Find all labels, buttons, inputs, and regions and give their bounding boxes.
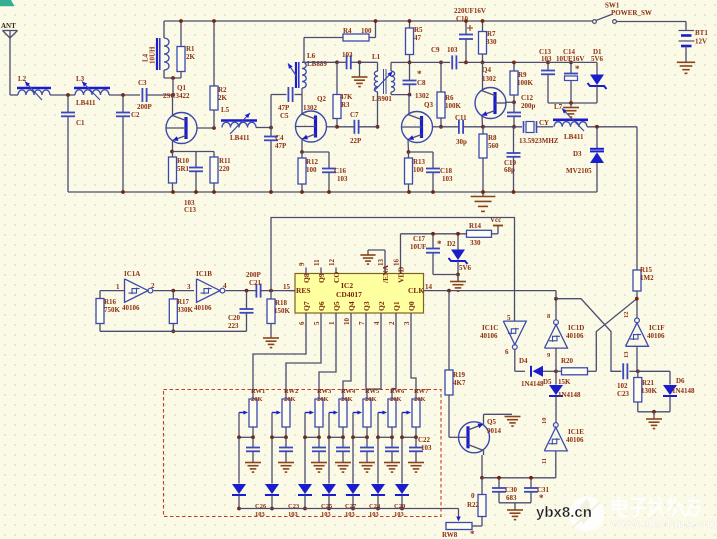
svg-text:C7: C7 (350, 111, 359, 119)
svg-text:10: 10 (541, 418, 548, 425)
svg-text:6: 6 (505, 348, 509, 356)
svg-text:20K: 20K (390, 396, 402, 403)
svg-text:R11: R11 (219, 157, 231, 165)
svg-text:L1: L1 (372, 53, 381, 61)
svg-text:L5: L5 (221, 106, 230, 114)
potentiometer RW3 (315, 399, 323, 427)
svg-text:2: 2 (388, 321, 396, 325)
IC2 bottom pin stubs (305, 313, 307, 320)
capacitor C8 (403, 80, 417, 82)
wire Q4 collector (482, 62, 484, 91)
wire clock corner down (555, 291, 557, 299)
wire Q1 base to R2/L5 node (197, 127, 214, 129)
svg-text:102: 102 (617, 382, 628, 390)
wire Q1 emitter (172, 140, 174, 152)
diode under RW7 (401, 437, 403, 483)
svg-text:LB411: LB411 (564, 133, 584, 141)
resistor R14 (467, 230, 492, 237)
wire Q5 collector (483, 450, 485, 455)
svg-text:47P: 47P (275, 142, 287, 150)
potentiometer RW2 (282, 399, 290, 427)
svg-text:200P: 200P (137, 103, 153, 111)
svg-text:RW2: RW2 (284, 388, 298, 395)
wire RW4 wiper column (328, 413, 330, 438)
svg-text:4: 4 (223, 282, 227, 290)
resistor R1 (180, 21, 182, 47)
inverter IC1D (545, 325, 568, 349)
svg-text:13: 13 (377, 259, 385, 267)
red dashed box (164, 390, 442, 517)
svg-text:LB889: LB889 (307, 60, 327, 68)
svg-text:C12: C12 (521, 94, 534, 102)
svg-text:RW3: RW3 (317, 388, 332, 395)
transformer L1 (374, 71, 378, 92)
potentiometer RW6 (388, 399, 396, 427)
ground above clock row (457, 276, 459, 282)
ground under battery (677, 61, 695, 63)
svg-text:4K7: 4K7 (453, 379, 466, 387)
inductor L7 (553, 119, 588, 122)
diode under RW2 (271, 437, 273, 483)
svg-text:1302: 1302 (303, 104, 318, 112)
svg-text:200P: 200P (246, 271, 262, 279)
wire L1 primary bottom to base row (377, 92, 379, 127)
capacitor C1 (67, 95, 69, 112)
top power rail (164, 20, 594, 22)
svg-text:R6: R6 (445, 94, 454, 102)
diode bus to RW8 (239, 508, 459, 510)
wire C6 to L1 primary (360, 61, 378, 63)
wire rail segment to switch (466, 61, 483, 63)
ground at /ENA (367, 250, 369, 255)
diode under RW5 (352, 437, 354, 483)
svg-text:100K: 100K (517, 79, 534, 87)
svg-text:40106: 40106 (647, 332, 665, 340)
svg-text:Q5: Q5 (332, 301, 341, 311)
svg-text:R2: R2 (218, 86, 227, 94)
svg-text:47: 47 (414, 34, 422, 42)
resistor R20 (556, 370, 562, 372)
svg-text:L6: L6 (307, 52, 316, 60)
svg-text:R1: R1 (186, 45, 195, 53)
svg-text:5R1: 5R1 (177, 165, 190, 173)
capacitor C6 (346, 55, 348, 69)
svg-text:Q8: Q8 (302, 273, 311, 283)
svg-text:*: * (417, 69, 422, 79)
capacitor C2 (122, 95, 124, 112)
resistor R7 (482, 21, 484, 32)
svg-text:13.5923MHZ: 13.5923MHZ (519, 137, 559, 145)
wire IC1F output cross link (596, 299, 637, 372)
wire base row junction (335, 125, 339, 129)
svg-text:R22: R22 (467, 501, 480, 509)
wire node up to C5 (270, 95, 272, 128)
svg-text:Q7: Q7 (302, 301, 311, 311)
svg-text:Q5: Q5 (487, 418, 496, 426)
svg-text:Q1: Q1 (177, 84, 186, 92)
wire RW2 bottom (285, 427, 287, 437)
svg-text:Q0: Q0 (407, 301, 416, 311)
wire Q2 emitter (301, 139, 303, 152)
potentiometer RW8 (446, 523, 472, 530)
svg-text:Q1: Q1 (392, 301, 401, 311)
resistor R4 (343, 34, 369, 41)
capacitor C22 (415, 437, 417, 447)
svg-text:20K: 20K (414, 396, 426, 403)
svg-text:RW1: RW1 (251, 388, 265, 395)
svg-text:CO: CO (332, 272, 341, 283)
capacitor C25 (318, 437, 320, 447)
svg-text:VDD: VDD (397, 266, 406, 283)
wire L1 secondary bottom node (390, 92, 392, 95)
capacitor C17 (432, 234, 434, 249)
svg-text:20K: 20K (365, 396, 377, 403)
svg-text:ANT: ANT (1, 22, 16, 30)
svg-text:30p: 30p (456, 138, 467, 146)
svg-text:C10: C10 (456, 15, 469, 23)
svg-text:R21: R21 (642, 379, 655, 387)
svg-text:*: * (575, 64, 580, 74)
oscillator input wire (100, 290, 125, 292)
svg-text:R10: R10 (177, 157, 190, 165)
svg-text:RES: RES (296, 286, 311, 295)
svg-text:7: 7 (358, 321, 366, 325)
svg-text:Q4: Q4 (347, 301, 356, 311)
svg-text:IC1E: IC1E (568, 428, 584, 436)
svg-text:*: * (437, 239, 442, 249)
svg-text:5V6: 5V6 (459, 264, 472, 272)
svg-text:1M2: 1M2 (640, 274, 654, 282)
svg-text:47P: 47P (278, 104, 290, 112)
svg-text:D5: D5 (543, 378, 552, 386)
svg-text:100: 100 (413, 166, 424, 174)
ground under D2 (457, 275, 459, 282)
svg-text:103: 103 (394, 511, 405, 518)
svg-text:BT1: BT1 (695, 29, 708, 37)
resistor R10 (169, 157, 177, 183)
wire C5 to collector node (295, 94, 303, 96)
svg-text:11: 11 (313, 259, 321, 266)
wire L6 top / R4 branch (302, 61, 304, 63)
svg-text:IC1D: IC1D (568, 324, 584, 332)
battery BT1 (679, 30, 695, 32)
ground under C6 (358, 60, 362, 64)
svg-text:CD4017: CD4017 (336, 290, 362, 299)
svg-text:IC1F: IC1F (649, 324, 665, 332)
inverter IC1E (544, 427, 567, 451)
svg-text:683: 683 (506, 494, 517, 502)
svg-text:40106: 40106 (480, 332, 498, 340)
wire RW1 bottom (252, 427, 254, 437)
wire R4 to rail (369, 37, 376, 39)
wire RW6 wiper column (377, 413, 379, 438)
ground under RW4 cap (335, 462, 351, 464)
wire reset loop box (271, 218, 515, 322)
svg-text:150K: 150K (274, 307, 291, 315)
capacitor C3 (141, 88, 143, 102)
wire D3 bottom to ground bus (490, 191, 597, 193)
capacitor C30 (498, 478, 500, 488)
svg-text:RW8: RW8 (442, 531, 458, 539)
svg-text:Q6: Q6 (317, 301, 326, 311)
diode under RW3 (304, 437, 306, 483)
svg-text:103: 103 (345, 511, 356, 518)
ground under RW1 cap (245, 462, 261, 464)
svg-text:C23: C23 (617, 390, 630, 398)
wire Q1 base row to Q2 via L5 done; Q2 collector node (301, 88, 303, 115)
resistor R12 (298, 158, 306, 184)
svg-text:220UF16V: 220UF16V (454, 7, 486, 15)
svg-text:Q9: Q9 (317, 273, 326, 283)
svg-text:750K: 750K (104, 306, 121, 314)
wire Q3 output to RW5 (366, 320, 367, 399)
svg-text:0: 0 (471, 492, 475, 500)
svg-text:330: 330 (470, 239, 481, 247)
svg-text:Q3: Q3 (424, 101, 433, 109)
capacitor C9 (451, 55, 453, 69)
wire Q4 output to RW4 (343, 320, 351, 399)
svg-text:L7: L7 (554, 103, 563, 111)
ground under R21/D6 (653, 412, 655, 419)
wire C13/C14/D1 bottom (548, 102, 597, 104)
svg-text:R4: R4 (343, 27, 352, 35)
svg-text:C20: C20 (228, 314, 241, 322)
inverter IC1C (503, 321, 526, 345)
svg-text:5: 5 (313, 321, 321, 325)
svg-text:R19: R19 (453, 371, 466, 379)
pin 15 stub (289, 290, 295, 292)
svg-text:2K: 2K (218, 94, 228, 102)
wire RW7 bottom (415, 427, 417, 437)
wire Q5 emitter to ground (483, 414, 485, 424)
wire Q0 output to RW7 (411, 320, 416, 399)
resistor R9 (513, 62, 515, 71)
inductor L4 (163, 21, 165, 38)
transistor Q4 (475, 88, 506, 119)
transistor Q3 (402, 112, 433, 143)
capacitor C19 (513, 127, 515, 153)
clock row (430, 290, 556, 292)
svg-text:103: 103 (337, 175, 348, 183)
wire RW1 wiper column (238, 413, 240, 438)
wire L4/R1 junction to Q1 (164, 77, 181, 79)
varactor D3 (596, 127, 598, 149)
ground under RW5 cap (359, 462, 375, 464)
svg-text:LB411: LB411 (76, 99, 96, 107)
svg-text:Q2: Q2 (377, 301, 386, 311)
wire L5 to node (256, 127, 271, 129)
svg-text:12: 12 (623, 312, 630, 319)
svg-text:C18: C18 (440, 167, 453, 175)
svg-text:R12: R12 (306, 158, 319, 166)
transistor Q2 (296, 111, 327, 142)
wire L3-C3 (109, 94, 140, 96)
svg-text:D2: D2 (447, 240, 456, 248)
svg-text:R15: R15 (640, 266, 653, 274)
svg-text:20K: 20K (251, 396, 263, 403)
wire Q5 collector row (482, 477, 499, 479)
ground under R18 (263, 337, 279, 339)
svg-text:C2: C2 (131, 111, 140, 119)
svg-text:IC1B: IC1B (196, 270, 212, 278)
svg-text:RW6: RW6 (390, 388, 405, 395)
row C9 (405, 61, 441, 63)
inductor L5 (221, 119, 257, 122)
svg-text:103: 103 (288, 511, 299, 518)
svg-text:12: 12 (328, 259, 336, 267)
svg-text:200p: 200p (521, 102, 536, 110)
oscillator feedback bus (100, 330, 247, 332)
resistor R15 (633, 270, 641, 291)
svg-text:RW7: RW7 (414, 388, 429, 395)
svg-text:Q4: Q4 (482, 66, 491, 74)
capacitor C10 (465, 21, 467, 35)
capacitor C28 (366, 437, 368, 447)
svg-text:C3: C3 (138, 79, 147, 87)
svg-text:103: 103 (321, 511, 332, 518)
svg-text:C30: C30 (505, 486, 518, 494)
svg-text:10: 10 (343, 318, 351, 326)
svg-text:11: 11 (541, 458, 548, 464)
wire RW7 wiper column (401, 413, 403, 438)
svg-text:R17: R17 (177, 298, 190, 306)
inverter IC1A (125, 279, 149, 303)
wire antenna to input row (9, 38, 11, 95)
svg-text:40106: 40106 (194, 304, 212, 312)
wire IC1B out (226, 290, 257, 292)
svg-text:22P: 22P (350, 137, 362, 145)
svg-text:R20: R20 (561, 357, 574, 365)
wire RW5 wiper column (352, 413, 354, 438)
wire Q4 base (505, 101, 514, 103)
svg-text:R13: R13 (413, 158, 426, 166)
svg-text:IC1A: IC1A (124, 270, 140, 278)
wire Q7 output to RW1 (253, 320, 306, 399)
svg-text:C9: C9 (431, 46, 440, 54)
ground under RW7 cap (408, 462, 424, 464)
svg-text:103: 103 (447, 46, 458, 54)
svg-text:1: 1 (116, 283, 120, 291)
svg-text:2SC3422: 2SC3422 (163, 92, 190, 100)
svg-text:40106: 40106 (566, 332, 584, 340)
diode under RW4 (328, 437, 330, 483)
svg-text:130K: 130K (641, 387, 658, 395)
svg-text:C22: C22 (418, 436, 431, 444)
wire switch to battery (616, 21, 686, 23)
capacitor C7 (353, 120, 355, 134)
IC2 CD4017 (295, 274, 424, 314)
wire Q4 emitter (481, 116, 484, 127)
svg-text:1302: 1302 (482, 75, 497, 83)
svg-text:D4: D4 (519, 357, 528, 365)
svg-text:www.elecfans.com: www.elecfans.com (609, 517, 717, 531)
wire C17/D2 bottom (433, 274, 458, 276)
svg-text:20K: 20K (317, 396, 329, 403)
svg-text:14: 14 (425, 283, 433, 291)
svg-text:15: 15 (283, 283, 291, 291)
capacitor C4 (270, 128, 272, 137)
zener D2 (457, 234, 459, 250)
capacitor C29 (391, 437, 393, 447)
svg-text:MV2105: MV2105 (566, 167, 592, 175)
wire RW3 wiper column (304, 413, 306, 438)
wire Q5 output to RW3 (319, 320, 336, 399)
svg-text:R18: R18 (275, 299, 288, 307)
resistor R3 (336, 62, 338, 94)
resistor R22 (481, 478, 483, 495)
svg-text:C16: C16 (334, 167, 347, 175)
wire Q6 output to RW2 (286, 320, 321, 399)
svg-text:10UF: 10UF (410, 243, 426, 251)
svg-text:IC2: IC2 (341, 281, 353, 290)
capacitor C13 (547, 62, 549, 70)
wire VDD pin (400, 234, 402, 274)
svg-text:1: 1 (328, 321, 336, 325)
wire Q3 base row (433, 126, 442, 128)
wire L7 to D3 node (587, 126, 637, 128)
svg-text:330: 330 (486, 38, 497, 46)
wire Q1 output to RW6 (392, 320, 396, 399)
inductor L3 (74, 87, 110, 90)
diode under RW6 (377, 437, 379, 483)
potentiometer RW1 (249, 399, 257, 427)
svg-text:RW5: RW5 (365, 388, 380, 395)
wire IC1D output cross link (556, 299, 621, 372)
svg-text:R7: R7 (487, 30, 496, 38)
wire RW2 wiper column (271, 413, 273, 438)
resistor R19 (448, 291, 450, 370)
svg-text:100: 100 (361, 27, 372, 35)
svg-text:10UH: 10UH (149, 46, 157, 64)
IC2 top pin stubs (305, 268, 307, 274)
svg-text:12V: 12V (695, 38, 707, 46)
wire emitter bracket (172, 151, 214, 153)
svg-text:R9: R9 (518, 71, 527, 79)
capacitor C23 (285, 437, 287, 447)
capacitor C16 (328, 152, 330, 169)
svg-text:ybx8.cn: ybx8.cn (536, 504, 592, 521)
diode D6 (638, 370, 670, 372)
capacitor C12 (513, 102, 515, 112)
Vcc symbol (497, 226, 499, 234)
svg-text:RW4: RW4 (341, 388, 356, 395)
diode D5 (555, 371, 557, 384)
inverter IC1F (626, 323, 649, 347)
ground under RW2 cap (278, 462, 294, 464)
svg-text:R14: R14 (469, 222, 482, 230)
watermark logo (570, 497, 605, 532)
svg-text:40106: 40106 (566, 436, 584, 444)
svg-text:R16: R16 (104, 298, 117, 306)
svg-text:4: 4 (373, 321, 381, 325)
svg-text:9: 9 (298, 262, 306, 266)
potentiometer RW7 (412, 399, 420, 427)
svg-text:16: 16 (393, 259, 401, 267)
potentiometer RW4 (339, 399, 347, 427)
svg-text:LB411: LB411 (230, 134, 250, 142)
svg-text:IC1C: IC1C (482, 324, 498, 332)
resistor R17 (172, 291, 174, 299)
svg-text:20K: 20K (284, 396, 296, 403)
wire RW4 bottom (342, 427, 344, 437)
inductor L2 (17, 87, 51, 90)
svg-text:103: 103 (421, 444, 432, 452)
svg-text:103: 103 (442, 175, 453, 183)
resistor R6 (440, 62, 442, 92)
resistor R21 (637, 371, 639, 377)
resistor R2 (213, 21, 215, 86)
svg-text:C17: C17 (413, 235, 426, 243)
